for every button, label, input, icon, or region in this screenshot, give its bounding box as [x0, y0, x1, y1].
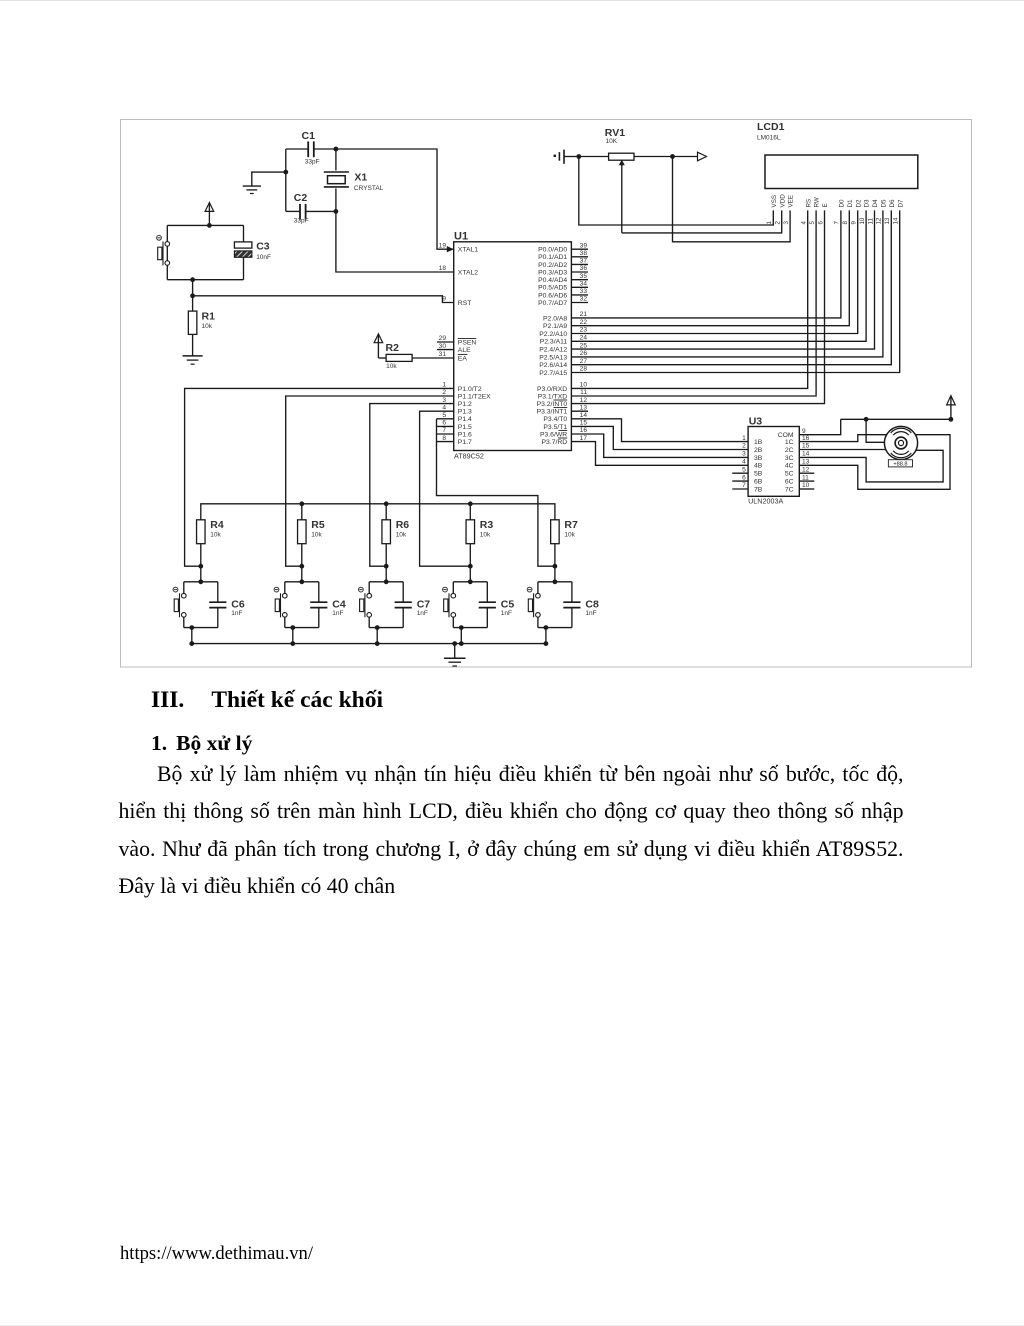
svg-text:5: 5 — [809, 221, 816, 225]
svg-text:12: 12 — [802, 466, 810, 473]
svg-text:4B: 4B — [754, 463, 763, 470]
wire LCD RW to P3.1 — [571, 210, 816, 396]
heading III — [151, 687, 383, 714]
wire LCD RS to P3.0 — [571, 210, 807, 388]
ground (crystal) — [243, 186, 261, 193]
power arrow (R2) — [374, 334, 383, 358]
svg-text:1nF: 1nF — [332, 610, 343, 617]
svg-text:1B: 1B — [754, 439, 763, 446]
svg-text:P3.1/TXD: P3.1/TXD — [538, 393, 568, 400]
svg-text:23: 23 — [580, 327, 588, 334]
svg-text:PSEN: PSEN — [458, 339, 477, 346]
svg-text:P1.7: P1.7 — [458, 439, 472, 446]
node C5 bottom stub — [459, 625, 464, 646]
svg-text:32: 32 — [580, 296, 588, 303]
power arrow (motor rail) — [947, 396, 956, 420]
push button (reset) — [157, 225, 244, 279]
svg-text:33: 33 — [580, 288, 588, 295]
svg-text:10: 10 — [859, 217, 866, 224]
svg-text:5B: 5B — [754, 471, 763, 478]
svg-text:13: 13 — [802, 459, 810, 466]
U1 left pin stubs — [437, 342, 454, 350]
push button (C4 block) — [274, 566, 319, 627]
svg-text:R6: R6 — [396, 519, 410, 531]
svg-text:27: 27 — [580, 358, 588, 365]
svg-text:21: 21 — [580, 311, 588, 318]
capacitor C1 — [286, 130, 336, 165]
svg-text:14: 14 — [893, 217, 900, 224]
wire U3 1C to motor — [799, 435, 887, 442]
wire U3 4C to motor (outer loop) — [799, 435, 950, 490]
svg-text:7B: 7B — [754, 486, 763, 493]
svg-text:C1: C1 — [302, 130, 316, 142]
svg-text:D1: D1 — [847, 199, 854, 208]
svg-text:E: E — [822, 203, 829, 207]
resistor top bus — [201, 504, 555, 520]
svg-text:D6: D6 — [889, 199, 896, 208]
resistor R4 — [197, 519, 224, 566]
svg-text:13: 13 — [580, 404, 588, 411]
node RV1 left — [576, 154, 581, 159]
svg-text:P3.3/INT1: P3.3/INT1 — [537, 409, 568, 416]
svg-text:1: 1 — [766, 221, 773, 225]
stepper motor — [884, 426, 917, 459]
svg-text:6: 6 — [817, 221, 824, 225]
footer url — [120, 1243, 313, 1265]
capacitor C2 — [286, 192, 336, 224]
svg-text:P3.0/RXD: P3.0/RXD — [537, 386, 567, 393]
svg-text:5: 5 — [442, 412, 446, 419]
svg-text:3B: 3B — [754, 455, 763, 462]
resistor R5 — [298, 504, 325, 566]
wire P1.1 to R5 column — [286, 396, 454, 566]
wire P3.6 to U3 3B — [571, 434, 748, 457]
svg-text:12: 12 — [876, 217, 883, 224]
svg-text:C2: C2 — [294, 192, 308, 204]
node C3 bottom stub — [190, 277, 195, 282]
wire P3.4 to U3 1B — [571, 419, 748, 442]
svg-text:1nF: 1nF — [231, 610, 242, 617]
svg-text:R1: R1 — [202, 310, 216, 322]
svg-text:26: 26 — [580, 350, 588, 357]
svg-text:C4: C4 — [332, 598, 346, 610]
node R4 bottom — [198, 564, 203, 569]
wire LCD VDD — [622, 210, 782, 233]
svg-text:P0.2/AD2: P0.2/AD2 — [538, 262, 567, 269]
svg-text:P0.6/AD6: P0.6/AD6 — [538, 292, 567, 299]
svg-text:P1.1/T2EX: P1.1/T2EX — [458, 393, 491, 400]
node C8 bottom stub — [544, 625, 549, 646]
svg-text:P2.5/A13: P2.5/A13 — [539, 354, 567, 361]
resistor R6 — [382, 504, 409, 566]
U3 unused input stubs 5B 6B 7B — [732, 473, 748, 489]
svg-text:3: 3 — [783, 221, 790, 225]
ground (main) — [444, 644, 466, 666]
svg-text:3: 3 — [442, 397, 446, 404]
svg-text:5: 5 — [742, 466, 746, 473]
svg-text:AT89C52: AT89C52 — [454, 451, 484, 460]
svg-text:1nF: 1nF — [585, 610, 596, 617]
svg-text:C6: C6 — [231, 598, 245, 610]
capacitor C3 — [234, 225, 271, 279]
svg-text:28: 28 — [580, 366, 588, 373]
wire P1.3 to R3 column — [420, 411, 471, 566]
svg-text:6: 6 — [442, 420, 446, 427]
svg-text:7: 7 — [834, 221, 841, 225]
svg-text:22: 22 — [580, 319, 588, 326]
svg-text:R3: R3 — [480, 519, 494, 531]
svg-text:33pF: 33pF — [305, 158, 320, 165]
push button (C8 block) — [527, 566, 572, 627]
svg-text:X1: X1 — [354, 172, 367, 184]
svg-text:29: 29 — [439, 335, 447, 342]
svg-text:10k: 10k — [480, 531, 491, 538]
svg-text:10: 10 — [802, 482, 810, 489]
svg-text:CRYSTAL: CRYSTAL — [354, 185, 384, 192]
svg-text:VEE: VEE — [788, 195, 795, 208]
svg-text:P2.6/A14: P2.6/A14 — [539, 362, 567, 369]
svg-text:P2.1/A9: P2.1/A9 — [543, 323, 567, 330]
svg-text:10K: 10K — [606, 138, 618, 145]
node rail-arrow — [949, 417, 954, 422]
svg-text:3: 3 — [742, 451, 746, 458]
node ground tap — [452, 641, 457, 646]
svg-text:EA: EA — [458, 355, 468, 362]
svg-text:ALE: ALE — [458, 347, 471, 354]
node XTAL junction bottom — [334, 209, 339, 214]
LCD1 pin labels and numbers — [766, 194, 904, 225]
wire LCD E to P3.2 — [571, 210, 824, 403]
node RV1 right — [670, 154, 675, 159]
svg-text:14: 14 — [802, 451, 810, 458]
capacitor C5 — [479, 582, 515, 628]
svg-text:1: 1 — [442, 382, 446, 389]
svg-text:2: 2 — [442, 389, 446, 396]
svg-text:P2.2/A10: P2.2/A10 — [539, 331, 567, 338]
svg-text:P0.7/AD7: P0.7/AD7 — [538, 300, 567, 307]
push button (C6 block) — [173, 566, 218, 627]
wire P3.5 to U3 2B — [571, 426, 748, 449]
node C7 bottom stub — [375, 625, 380, 646]
svg-text:U1: U1 — [454, 231, 468, 243]
svg-text:C3: C3 — [256, 240, 270, 252]
svg-text:14: 14 — [580, 412, 588, 419]
wires LCD D0-D7 to P2.0-P2.7 — [571, 210, 899, 372]
svg-text:D5: D5 — [881, 199, 888, 208]
svg-text:2: 2 — [775, 221, 782, 225]
power rail (motor) — [841, 418, 951, 420]
resistor R3 — [466, 504, 493, 566]
node C3 block top — [207, 223, 212, 228]
svg-text:33pF: 33pF — [294, 217, 309, 224]
svg-text:5C: 5C — [785, 471, 794, 478]
svg-text:16: 16 — [580, 427, 588, 434]
resistor R7 — [551, 519, 578, 566]
wire U3 2C to motor — [799, 449, 886, 451]
capacitor C8 — [563, 582, 599, 628]
svg-text:11: 11 — [802, 474, 809, 481]
motor angle display +88.8 — [888, 460, 912, 468]
svg-text:2C: 2C — [785, 447, 794, 454]
wire C1-C2 left vertical — [285, 149, 287, 211]
node C4 bottom stub — [290, 625, 295, 646]
resistor R1 — [188, 296, 215, 356]
microcontroller U1 AT89C52 — [454, 231, 572, 461]
svg-text:R4: R4 — [210, 519, 224, 531]
U1 P0 pin stubs — [571, 249, 588, 302]
svg-text:P3.4/T0: P3.4/T0 — [543, 416, 567, 423]
svg-text:37: 37 — [580, 258, 588, 265]
wire U3 COM to rail — [799, 419, 840, 434]
svg-text:VDD: VDD — [779, 194, 786, 208]
wire C3 block bottom — [167, 279, 243, 281]
svg-text:P1.0/T2: P1.0/T2 — [458, 386, 482, 393]
svg-text:4C: 4C — [785, 463, 794, 470]
node R3 bottom — [468, 564, 473, 569]
node XTAL junction top — [334, 147, 339, 152]
node RST junction — [190, 293, 195, 298]
power arrow (reset circuit) — [205, 203, 214, 226]
push button (C5 block) — [443, 566, 488, 627]
svg-text:7: 7 — [742, 482, 746, 489]
wire XTAL2 feed — [336, 211, 454, 272]
svg-text:10k: 10k — [311, 531, 322, 538]
wire P1.4-P1.7 to R7 column — [437, 419, 555, 566]
svg-text:C8: C8 — [585, 598, 599, 610]
svg-text:6C: 6C — [785, 479, 794, 486]
svg-text:9: 9 — [442, 296, 446, 303]
ground (R1) — [183, 356, 203, 364]
svg-text:P1.2: P1.2 — [458, 401, 472, 408]
svg-text:10k: 10k — [386, 363, 397, 370]
svg-text:R2: R2 — [386, 342, 400, 354]
svg-text:4: 4 — [801, 221, 808, 225]
svg-text:P1.4: P1.4 — [458, 416, 472, 423]
svg-text:18: 18 — [439, 265, 447, 272]
svg-text:1nF: 1nF — [417, 610, 428, 617]
node rail-motor — [864, 417, 869, 422]
svg-text:8: 8 — [842, 221, 849, 225]
svg-text:10nF: 10nF — [256, 254, 271, 261]
svg-text:P3.5/T1: P3.5/T1 — [543, 424, 567, 431]
ground bus — [192, 643, 546, 645]
svg-text:10k: 10k — [210, 531, 221, 538]
svg-text:10k: 10k — [202, 323, 213, 330]
wire P3.7 to U3 4B — [571, 442, 748, 466]
svg-text:P2.7/A15: P2.7/A15 — [539, 370, 567, 377]
push button (C7 block) — [359, 566, 404, 627]
capacitor C7 — [395, 582, 431, 628]
svg-text:10: 10 — [580, 382, 588, 389]
svg-text:35: 35 — [580, 273, 588, 280]
svg-text:8: 8 — [442, 435, 446, 442]
svg-text:15: 15 — [580, 420, 588, 427]
heading 1 — [151, 731, 252, 756]
wire rail to motor common — [866, 419, 884, 442]
svg-text:C5: C5 — [501, 598, 515, 610]
paragraph — [157, 762, 904, 787]
svg-text:P0.3/AD3: P0.3/AD3 — [538, 269, 567, 276]
svg-text:10k: 10k — [564, 531, 575, 538]
svg-text:P2.3/A11: P2.3/A11 — [540, 339, 568, 346]
svg-text:RS: RS — [805, 199, 812, 208]
potentiometer RV1 — [579, 127, 673, 233]
svg-text:C7: C7 — [417, 598, 431, 610]
svg-text:19: 19 — [439, 242, 447, 249]
svg-text:U3: U3 — [749, 416, 763, 428]
svg-text:6: 6 — [742, 474, 746, 481]
svg-text:D0: D0 — [839, 199, 846, 208]
svg-text:10k: 10k — [396, 531, 407, 538]
crystal X1 — [324, 149, 384, 211]
wire P1.0 to R4 column — [185, 388, 454, 566]
svg-text:RW: RW — [814, 197, 821, 207]
svg-text:17: 17 — [580, 435, 588, 442]
svg-text:24: 24 — [580, 335, 588, 342]
svg-text:39: 39 — [580, 242, 588, 249]
svg-text:30: 30 — [439, 343, 447, 350]
wire U3 3C to motor (lower loop) — [799, 450, 943, 482]
schematic frame — [121, 120, 972, 668]
wire P1.2 to R6 column — [370, 404, 454, 567]
svg-text:P3.7/RD: P3.7/RD — [542, 439, 568, 446]
svg-text:2B: 2B — [754, 447, 763, 454]
svg-text:16: 16 — [802, 435, 810, 442]
svg-text:LCD1: LCD1 — [757, 121, 785, 133]
svg-text:38: 38 — [580, 250, 588, 257]
LCD1 LM016L display — [757, 121, 918, 189]
wire to ground — [252, 172, 286, 186]
svg-text:LM016L: LM016L — [757, 135, 781, 142]
svg-text:25: 25 — [580, 342, 588, 349]
svg-text:2: 2 — [742, 443, 746, 450]
svg-text:12: 12 — [580, 397, 588, 404]
svg-text:R7: R7 — [564, 519, 578, 531]
wire XTAL1 feed — [336, 149, 454, 249]
U1 P3.3 pin stub — [571, 410, 588, 412]
svg-text:1C: 1C — [785, 439, 794, 446]
svg-text:7C: 7C — [785, 486, 794, 493]
svg-text:P0.5/AD5: P0.5/AD5 — [538, 285, 567, 292]
svg-text:RST: RST — [458, 300, 472, 307]
svg-text:11: 11 — [580, 389, 587, 396]
node R6 bottom — [384, 564, 389, 569]
svg-text:P1.3: P1.3 — [458, 409, 472, 416]
svg-text:ULN2003A: ULN2003A — [748, 497, 783, 506]
svg-text:4: 4 — [442, 404, 446, 411]
wire RST — [193, 296, 454, 303]
svg-text:1nF: 1nF — [501, 610, 512, 617]
svg-text:34: 34 — [580, 281, 588, 288]
svg-text:P1.5: P1.5 — [458, 424, 472, 431]
svg-text:6B: 6B — [754, 479, 763, 486]
svg-text:P3.2/INT0: P3.2/INT0 — [537, 401, 568, 408]
svg-text:P1.6: P1.6 — [458, 431, 472, 438]
svg-text:9: 9 — [851, 221, 858, 225]
node R5 bottom — [299, 564, 304, 569]
svg-text:11: 11 — [867, 218, 874, 225]
wire LCD VSS — [579, 157, 774, 226]
svg-text:15: 15 — [802, 443, 810, 450]
svg-text:COM: COM — [778, 432, 794, 439]
U1 right pin names P0/P2/P3 — [537, 242, 588, 446]
svg-text:1: 1 — [742, 435, 746, 442]
power arrow (RV1 rail) — [673, 152, 707, 161]
capacitor C4 — [310, 582, 346, 628]
U3 pin names and numbers — [742, 428, 810, 494]
svg-text:VSS: VSS — [771, 195, 778, 208]
wire LCD VEE — [673, 157, 791, 242]
svg-text:13: 13 — [884, 217, 891, 224]
svg-text:R5: R5 — [311, 519, 325, 531]
svg-text:P2.0/A8: P2.0/A8 — [543, 315, 567, 322]
node C1-C2 ground tap — [283, 170, 288, 175]
svg-text:36: 36 — [580, 265, 588, 272]
svg-text:D3: D3 — [864, 199, 871, 208]
U1 left pin names and numbers — [439, 242, 491, 446]
node C6 bottom stub — [189, 625, 194, 646]
capacitor C6 — [209, 582, 245, 628]
svg-text:P0.4/AD4: P0.4/AD4 — [538, 277, 567, 284]
driver U3 ULN2003A — [748, 416, 799, 506]
U3 unused output stubs 5C 6C 7C — [799, 473, 814, 489]
svg-text:XTAL1: XTAL1 — [458, 247, 478, 254]
svg-text:P3.6/WR: P3.6/WR — [540, 431, 567, 438]
svg-text:31: 31 — [439, 351, 447, 358]
svg-text:XTAL2: XTAL2 — [458, 269, 478, 276]
svg-text:4: 4 — [742, 459, 746, 466]
svg-text:+88.8: +88.8 — [893, 461, 907, 467]
svg-text:3C: 3C — [785, 455, 794, 462]
svg-text:P0.1/AD1: P0.1/AD1 — [538, 254, 567, 261]
svg-text:P0.0/AD0: P0.0/AD0 — [538, 247, 567, 254]
resistor R2 — [378, 342, 453, 370]
battery symbol (supply) — [554, 150, 579, 164]
svg-text:D7: D7 — [897, 199, 904, 208]
svg-text:D2: D2 — [855, 199, 862, 208]
svg-text:P2.4/A12: P2.4/A12 — [539, 347, 567, 354]
svg-text:D4: D4 — [872, 199, 879, 208]
svg-text:7: 7 — [442, 427, 446, 434]
node R7 bottom — [553, 564, 558, 569]
